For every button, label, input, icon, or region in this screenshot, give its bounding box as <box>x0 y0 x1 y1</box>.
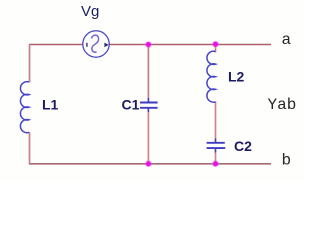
wire top-right segment (Vg to terminal a) <box>109 44 272 46</box>
wire C1 branch upper <box>147 45 149 103</box>
svg-text:a: a <box>282 31 292 49</box>
wire left vertical lower (L1 to bottom) <box>29 132 31 164</box>
svg-text:C2: C2 <box>234 138 252 154</box>
node junction top C1 <box>145 41 152 48</box>
inductor L2 (coil) <box>207 51 216 102</box>
AC source left terminal tick <box>86 43 88 47</box>
svg-text:Vg: Vg <box>81 3 99 20</box>
wire bottom (b rail) <box>29 163 271 165</box>
AC source sine wave <box>92 35 99 52</box>
wire L2 to C2 <box>215 102 217 143</box>
capacitor C2 plates <box>207 142 225 144</box>
svg-text:b: b <box>282 152 292 170</box>
capacitor C1 top lead stub <box>147 98 149 102</box>
svg-text:Yab: Yab <box>268 96 297 114</box>
wire top-left segment (corner to Vg source) <box>29 44 84 46</box>
svg-text:L2: L2 <box>228 69 245 85</box>
svg-text:C1: C1 <box>122 97 140 113</box>
capacitor C2 bottom lead stub <box>215 149 217 153</box>
capacitor C1 plates <box>140 102 158 104</box>
wire L2 stub from node a rail <box>215 45 217 53</box>
inductor L1 (coil) <box>20 82 29 133</box>
node junction bottom C1 <box>145 160 152 167</box>
node junction bottom C2 (net b) <box>212 160 219 167</box>
wire left vertical upper (corner to L1) <box>29 45 31 83</box>
capacitor C2 top lead stub <box>215 139 217 143</box>
wire C1 branch lower <box>147 108 149 164</box>
node junction top L2 (net a) <box>212 41 219 48</box>
wire C2 to bottom rail <box>215 149 217 164</box>
AC voltage source Vg (circle) <box>83 31 109 57</box>
svg-text:L1: L1 <box>42 97 59 113</box>
capacitor C1 bottom lead stub <box>147 108 149 112</box>
AC source right terminal arrow <box>104 43 108 48</box>
